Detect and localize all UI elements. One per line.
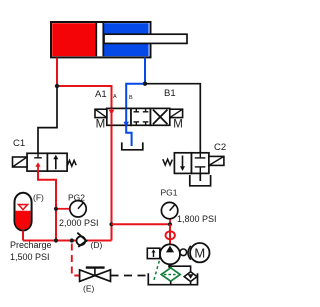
solenoid V1 right — [170, 109, 183, 117]
wire green case drain dashed — [154, 261, 160, 281]
gauge PG1 — [161, 202, 177, 224]
wire black B-side branch to C2 — [145, 84, 200, 153]
svg-text:(E): (E) — [83, 284, 95, 294]
wire red through valve — [111, 108, 113, 125]
node C1-drain junction — [54, 238, 58, 242]
wire blue B run into valve and to tank — [126, 84, 145, 146]
spring C1 right — [67, 160, 76, 166]
valve C2 blocked ports — [195, 153, 206, 174]
arrow red C1 bottom port — [35, 162, 40, 171]
cylinder CYL body — [51, 22, 151, 57]
compensator box — [147, 248, 160, 258]
wire check to tank — [190, 282, 192, 285]
svg-text:C1: C1 — [13, 138, 25, 149]
node PG1 tee — [168, 222, 172, 226]
motor M1 — [190, 243, 209, 262]
valve C2 body — [174, 153, 209, 174]
tank T1 under valve B port — [122, 142, 143, 149]
wire black dashed E to tank — [111, 275, 149, 277]
svg-text:A: A — [113, 94, 117, 100]
valve C1 body — [27, 153, 67, 171]
wire red to pump — [112, 223, 171, 225]
svg-text:C2: C2 — [214, 142, 226, 153]
node PG2 tee — [54, 207, 58, 211]
wire C2 to tank — [199, 173, 201, 181]
tank T3 reservoir — [148, 273, 197, 284]
valve C1 blocked port — [34, 153, 42, 158]
svg-text:(D): (D) — [91, 240, 103, 250]
coupling — [180, 246, 191, 260]
arrow red into valve A port — [109, 110, 115, 115]
svg-text:Precharge: Precharge — [10, 240, 52, 250]
check valve red outlet — [166, 231, 175, 239]
wire blue rod-side pipe — [144, 58, 146, 84]
solenoid V1 left — [95, 109, 107, 117]
wire red A1 run to valve and main pressure bus — [57, 86, 112, 241]
pump P1 — [160, 244, 180, 264]
solenoid C2 — [209, 156, 224, 165]
check valve D — [77, 233, 87, 247]
tank T2 under C2 — [190, 175, 211, 186]
accumulator F — [15, 193, 32, 231]
arrow C1 flow path — [53, 155, 58, 170]
svg-text:PG1: PG1 — [161, 188, 178, 198]
cylinder piston — [96, 23, 105, 56]
svg-text:M: M — [96, 118, 106, 130]
wire black A-side branch to C1 — [38, 86, 57, 153]
svg-text:1,500 PSI: 1,500 PSI — [10, 252, 50, 262]
wire red accumulator bus — [23, 240, 112, 242]
valve E shut-off — [80, 268, 111, 282]
wire blue through valve — [125, 108, 127, 125]
cylinder rod — [104, 34, 187, 43]
svg-text:M: M — [173, 118, 183, 130]
svg-text:B: B — [129, 95, 133, 101]
solenoid C1 — [13, 157, 28, 167]
node suction tee — [168, 264, 172, 268]
gauge PG2 — [56, 201, 86, 217]
wire pump suction — [170, 264, 191, 271]
svg-text:1,800 PSI: 1,800 PSI — [177, 214, 217, 224]
svg-text:M: M — [194, 246, 205, 261]
filter green — [161, 268, 180, 281]
svg-text:A1: A1 — [95, 89, 107, 100]
valve V1 4/3 directional body — [107, 108, 170, 125]
svg-text:(F): (F) — [33, 193, 44, 203]
wire red to pump top — [169, 224, 171, 244]
wire red C1 drain run — [38, 171, 56, 240]
svg-text:B1: B1 — [164, 88, 176, 99]
node B junction — [143, 82, 147, 86]
wire filter to tank — [170, 281, 172, 285]
wire red cap-side pipe — [56, 58, 58, 86]
wire red dashed branch to E — [72, 244, 80, 276]
wire red accumulator stem — [22, 231, 24, 241]
svg-text:PG2: PG2 — [68, 193, 85, 203]
svg-text:2,000 PSI: 2,000 PSI — [59, 218, 99, 228]
node pump bus junction — [109, 222, 113, 226]
spring C2 left — [163, 159, 173, 165]
valve V1 crossed position — [153, 110, 167, 125]
check valve bypass — [184, 272, 197, 282]
valve V1 center blocked ports — [134, 108, 149, 125]
node A junction — [55, 84, 59, 88]
arrow C2 flow path down — [180, 156, 185, 172]
arrow blue valve B port — [123, 122, 129, 127]
node E-branch junction — [70, 238, 74, 242]
